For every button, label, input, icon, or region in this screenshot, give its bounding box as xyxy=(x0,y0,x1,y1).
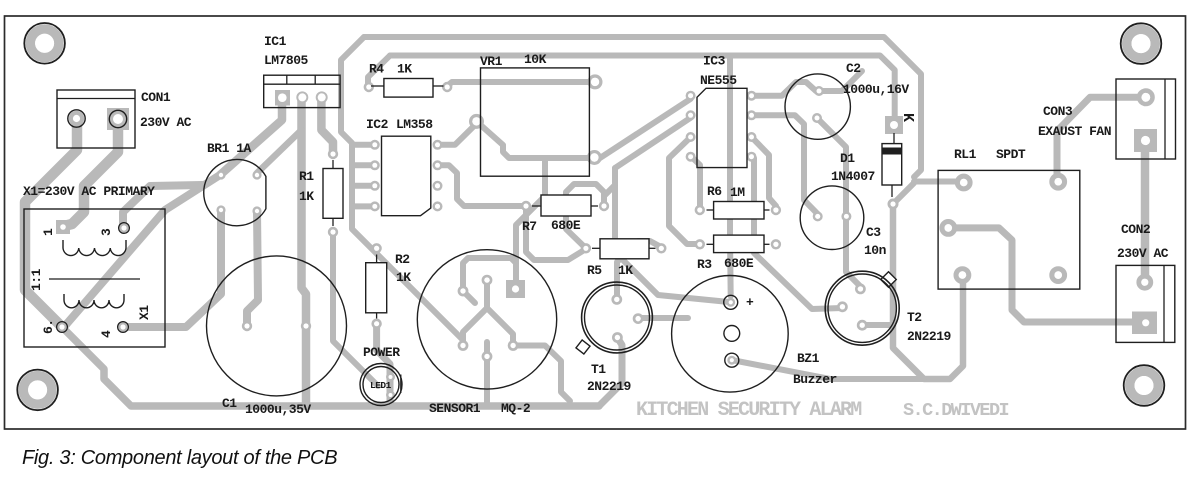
wire T2 emitter join xyxy=(862,322,890,328)
pad IC2 pinR3 xyxy=(434,182,442,190)
pad T1 collector xyxy=(613,295,621,303)
svg-text:K: K xyxy=(899,113,916,122)
pad T2 base xyxy=(838,303,846,311)
transistor T1 2N2219 xyxy=(582,282,653,353)
pad BR1 pad2 xyxy=(254,172,261,179)
pad IC3 pinL4 xyxy=(687,153,695,161)
svg-text:2N2219: 2N2219 xyxy=(587,379,632,394)
wire T1 collector riser to R5 xyxy=(617,241,661,299)
resistor R2 xyxy=(366,263,387,313)
wire BR1 BR to C1 left pad xyxy=(247,211,258,326)
svg-text:CON3: CON3 xyxy=(1043,104,1073,119)
svg-text:6.: 6. xyxy=(41,319,56,334)
pad SENSOR1 pad MR xyxy=(509,341,517,349)
wire T1 base lead right xyxy=(638,315,688,321)
resistor R4 xyxy=(384,79,433,98)
wire X1 pin3 riser xyxy=(123,185,202,228)
svg-text:1K: 1K xyxy=(397,62,412,77)
pad C3 left xyxy=(814,213,822,221)
pad CON3-2 (square) xyxy=(1134,129,1157,152)
resistor R3 xyxy=(714,235,764,253)
wire junction diag to IC3 pin2 xyxy=(615,118,691,168)
pad IC3 pinR4 xyxy=(748,153,756,161)
pad IC2 pinL4 xyxy=(371,203,379,211)
pad RL1 pad BR xyxy=(1052,269,1065,282)
pad mount hole TR xyxy=(1127,29,1156,58)
wire CON1-L to X1 pin6 (AC neutral) xyxy=(25,120,77,327)
wire CON1-R to X1 pin1 xyxy=(64,120,118,226)
svg-text:R3: R3 xyxy=(697,257,712,272)
pad X1 pin4 xyxy=(119,323,127,331)
svg-text:IC3: IC3 xyxy=(703,54,726,69)
pad IC2 pinL3 xyxy=(371,182,379,190)
transistor T2 2N2219 tab xyxy=(881,272,897,288)
svg-text:LM7805: LM7805 xyxy=(264,53,309,68)
diode D1 1N4007 xyxy=(893,133,895,144)
svg-text:LM358: LM358 xyxy=(396,117,433,132)
pad BR1 pad1 xyxy=(218,172,225,179)
op-amp IC2 LM358 xyxy=(382,136,431,216)
pad X1 pin3 xyxy=(120,224,128,232)
svg-text:1M: 1M xyxy=(730,185,745,200)
pad C2 minus xyxy=(813,114,821,122)
pad SENSOR1 pad TL xyxy=(459,287,467,295)
svg-text:MQ-2: MQ-2 xyxy=(501,401,531,416)
pad IC3 pinR2 xyxy=(748,112,756,120)
wire C2 plus to rail B xyxy=(819,71,862,91)
wire CON3 pad to RL1 contact xyxy=(1057,97,1146,181)
wire IC1 pin2 down through C1 right pad to bottom bus xyxy=(302,98,307,406)
connector CON2 xyxy=(1116,265,1175,342)
wire BR1 TR to R1 top xyxy=(257,130,302,173)
pad BR1 pad4 xyxy=(254,208,261,215)
pad IC3 pinL1 xyxy=(687,92,695,100)
svg-text:EXAUST FAN: EXAUST FAN xyxy=(1038,124,1111,139)
pad RL1 pad ML xyxy=(942,222,955,235)
pad CON2-2 (square) xyxy=(1132,312,1157,335)
svg-text:Fig. 3: Component layout of th: Fig. 3: Component layout of the PCB xyxy=(22,447,337,469)
wire R1 bottom to LED1 cathode xyxy=(333,232,378,386)
resistor R5 xyxy=(600,239,649,259)
pad R7 right xyxy=(600,202,608,210)
pad C2 plus xyxy=(815,87,823,95)
svg-text:1000u,35V: 1000u,35V xyxy=(245,402,311,417)
pad CON1-2 (square) xyxy=(107,108,129,130)
svg-text:4: 4 xyxy=(99,330,114,338)
svg-text:RL1: RL1 xyxy=(954,147,977,162)
svg-text:3: 3 xyxy=(99,228,114,236)
svg-text:C2: C2 xyxy=(846,61,861,76)
bridge rectifier BR1 xyxy=(204,159,266,225)
wire IC2 pin7 to R7 left xyxy=(438,165,527,206)
svg-text:R5: R5 xyxy=(587,263,602,278)
svg-text:LED1: LED1 xyxy=(370,380,392,391)
wire D1 anode to RL1-TL xyxy=(893,182,958,205)
pad R2 bottom xyxy=(373,320,381,328)
resistor R1 xyxy=(323,169,343,219)
wire IC2 pin1 stub xyxy=(352,142,375,148)
wire IC2 pin2 stub xyxy=(352,162,375,168)
capacitor C3 xyxy=(800,186,864,250)
pad BR1 pad3 xyxy=(218,207,225,214)
svg-text:1K: 1K xyxy=(299,189,314,204)
svg-text:R7: R7 xyxy=(522,219,537,234)
svg-text:BZ1: BZ1 xyxy=(797,351,820,366)
pad R5 left xyxy=(582,244,590,252)
pad R5 right xyxy=(657,244,665,252)
wire BR1 TL to X1 pin6 diagonal xyxy=(64,175,220,327)
wire D1 anode down to relay bus xyxy=(893,206,963,379)
pad R1 bottom xyxy=(329,228,337,236)
wire SENSOR1 bottom pad to bottom bus xyxy=(484,356,490,406)
svg-text:R6: R6 xyxy=(707,184,722,199)
wire R2 bottom through LED1 to bus xyxy=(377,324,390,406)
svg-text:VR1: VR1 xyxy=(480,54,503,69)
svg-text:1K: 1K xyxy=(396,270,411,285)
pad IC3 pinL2 xyxy=(687,112,695,120)
pad IC2 pinL1 xyxy=(371,141,379,149)
wire SENSOR1 right pad out to bottom bus xyxy=(513,346,570,402)
wire bottom bus up to T1 emitter xyxy=(599,337,622,406)
pad R4 right xyxy=(443,83,451,91)
svg-text:T1: T1 xyxy=(591,362,606,377)
pad R3 right xyxy=(772,240,780,248)
pad C1 plus xyxy=(243,322,251,330)
svg-text:C3: C3 xyxy=(866,225,881,240)
pad RL1 pad TR xyxy=(1052,175,1065,188)
svg-text:R4: R4 xyxy=(369,62,384,77)
pad VR1 pad3 xyxy=(589,152,601,164)
relay RL1 xyxy=(938,170,1080,289)
pad mount hole BR xyxy=(1130,371,1159,400)
wire IC3 pin3 to R3 left xyxy=(669,137,700,244)
resistor R6 xyxy=(714,202,764,220)
wire R7 left loop down to R5 left xyxy=(526,206,586,260)
svg-text:Buzzer: Buzzer xyxy=(793,372,837,387)
pad C3 right xyxy=(843,213,851,221)
transformer X1 pin rings xyxy=(119,223,130,234)
pad T2 collector xyxy=(856,285,864,293)
transistor T1 2N2219 tab xyxy=(576,340,590,354)
svg-text:R2: R2 xyxy=(395,252,410,267)
wire BR1 BL to X1 pin4 xyxy=(124,210,221,327)
svg-text:680E: 680E xyxy=(724,256,754,271)
pad mount hole BL xyxy=(23,376,52,405)
wire junction to BZ1 plus xyxy=(615,168,729,302)
svg-text:X1: X1 xyxy=(137,305,152,320)
svg-text:10K: 10K xyxy=(524,52,547,67)
svg-text:R1: R1 xyxy=(299,169,314,184)
pad R7 left xyxy=(522,202,530,210)
capacitor C2 xyxy=(785,74,850,139)
pad IC3 pinR3 xyxy=(748,133,756,141)
transformer X1 outline xyxy=(24,209,165,347)
wire VR1 left pad to bottom-right pad xyxy=(477,121,595,158)
pad T1 emitter xyxy=(613,333,621,341)
pad IC2 pinR2 xyxy=(434,162,442,170)
pad R4 left xyxy=(365,83,373,91)
svg-text:IC2: IC2 xyxy=(366,117,389,132)
wire top rail A xyxy=(364,37,921,177)
pad CON1-1 xyxy=(71,113,82,124)
svg-text:2N2219: 2N2219 xyxy=(907,329,952,344)
pad CON2-1 xyxy=(1139,276,1151,288)
wire IC3 pin4 to R6 left xyxy=(691,156,700,210)
svg-text:1:1: 1:1 xyxy=(29,268,44,291)
regulator IC1 LM7805 xyxy=(264,75,340,107)
transistor T2 2N2219 xyxy=(825,271,899,345)
pad D1 anode xyxy=(889,200,897,208)
wire SENSOR1 heater web xyxy=(463,283,513,356)
pad SENSOR1 pad bottom xyxy=(483,352,491,360)
svg-text:C1: C1 xyxy=(222,396,237,411)
pad C1 minus xyxy=(302,322,310,330)
svg-text:1N4007: 1N4007 xyxy=(831,169,875,184)
wire IC3 pin8 to C2 plus xyxy=(752,82,820,96)
svg-text:CON1: CON1 xyxy=(141,90,171,105)
connector CON3 xyxy=(1116,79,1176,159)
pad R1 top xyxy=(329,150,337,158)
svg-text:230V AC: 230V AC xyxy=(1117,246,1169,261)
wire IC1 pin1 to BR1 TL pad xyxy=(220,98,282,175)
pad IC1 pin1 (square) xyxy=(275,90,290,106)
pad X1 pin1 (square) xyxy=(56,220,70,234)
pad VR1 pad1 xyxy=(589,76,601,88)
svg-text:230V AC: 230V AC xyxy=(140,115,192,130)
wire top rail B xyxy=(390,56,895,121)
wire IC3 pin6 to R6 right xyxy=(752,137,777,206)
svg-text:X1=230V AC PRIMARY: X1=230V AC PRIMARY xyxy=(23,184,155,199)
wire IC2 pin8 to VR1 left pad xyxy=(438,124,477,145)
svg-text:1000u,16V: 1000u,16V xyxy=(843,82,909,97)
svg-text:+: + xyxy=(746,295,754,310)
svg-text:10n: 10n xyxy=(864,243,887,258)
svg-text:KITCHEN SECURITY ALARM: KITCHEN SECURITY ALARM xyxy=(636,399,862,422)
LED1 xyxy=(360,364,402,406)
pad R3 left xyxy=(696,240,704,248)
mount hole TL outline xyxy=(24,23,65,64)
svg-text:SENSOR1: SENSOR1 xyxy=(429,401,481,416)
wire R4 right to VR1 wiper rail xyxy=(447,82,594,86)
pad LED1 anode xyxy=(387,374,394,381)
wire IC3 pin5 down to T2 base xyxy=(754,158,842,309)
preset VR1 xyxy=(481,68,590,176)
svg-text:D1: D1 xyxy=(840,151,855,166)
pad SENSOR1 pad TR (square) xyxy=(506,280,525,298)
transformer X1 primary winding xyxy=(63,240,126,256)
pad RL1 pad BL xyxy=(956,269,969,282)
mount hole BR outline xyxy=(1124,365,1165,406)
pad T2 emitter xyxy=(858,321,866,329)
svg-text:SPDT: SPDT xyxy=(996,147,1026,162)
svg-text:CON2: CON2 xyxy=(1121,222,1151,237)
pad R2 top xyxy=(373,244,381,252)
pad IC3 pinR1 xyxy=(748,92,756,100)
pad IC2 pinL2 xyxy=(371,162,379,170)
pad X1 pin6 xyxy=(58,323,66,331)
wire IC2 pin4 stub xyxy=(352,203,375,209)
pad RL1 pad TL xyxy=(957,176,970,189)
svg-text:680E: 680E xyxy=(551,218,581,233)
wire R5 left over R7 arch to R7 right xyxy=(566,184,604,248)
connector CON1 xyxy=(57,90,135,148)
wire VR1 stub down to SENSOR1 square pad xyxy=(516,158,545,287)
wire rail B down to BZ1 plus xyxy=(727,58,734,296)
pad SENSOR1 pad top xyxy=(483,276,491,284)
wire top rail B left drop to R4 xyxy=(368,56,390,87)
pad R6 right xyxy=(772,206,780,214)
pad IC1 pin3 xyxy=(317,92,327,102)
pad VR1 pad2 xyxy=(471,116,483,128)
svg-text:T2: T2 xyxy=(907,310,922,325)
svg-text:IC1: IC1 xyxy=(264,34,287,49)
pad CON3-1 xyxy=(1139,91,1152,104)
pad BZ1 plus xyxy=(727,299,734,306)
wire CON3 square pad down to CON2 pad xyxy=(1141,150,1150,281)
buzzer BZ1 xyxy=(672,276,789,393)
wire R7 right to junction xyxy=(604,170,615,206)
gas sensor SENSOR1 MQ-2 xyxy=(417,250,556,389)
pad R6 left xyxy=(696,206,704,214)
mount hole TR outline xyxy=(1121,23,1162,64)
pad BZ1 minus xyxy=(729,357,736,364)
wire IC3 pin7 to C3 left xyxy=(752,115,818,214)
resistor R7 xyxy=(541,195,591,216)
pad IC2 pinR1 xyxy=(434,141,442,149)
svg-text:S.C.DWIVEDI: S.C.DWIVEDI xyxy=(903,400,1009,421)
mount hole BL outline xyxy=(17,370,58,411)
pad IC1 pin2 xyxy=(297,92,307,102)
wire X1 pin6 to bottom ground bus xyxy=(62,327,599,406)
LED1 flat edge xyxy=(400,375,402,394)
pad D1 cathode K (square) xyxy=(885,116,903,134)
pad mount hole TL xyxy=(30,29,59,58)
wire C2 minus down through C3 right to T2 collector xyxy=(817,118,860,286)
pad T1 base xyxy=(634,315,642,323)
capacitor C1 xyxy=(207,256,347,396)
svg-text:BR1 1A: BR1 1A xyxy=(207,141,252,156)
timer IC3 NE555 xyxy=(697,88,747,167)
wire IC1 pin3 to R1 top xyxy=(321,98,333,154)
wire RL1 common to CON2 square pad xyxy=(948,228,1140,322)
pad LED1 cathode xyxy=(387,392,394,399)
pad IC2 pinR4 xyxy=(434,203,442,211)
wire BZ1 minus to relay trace xyxy=(732,360,924,379)
wire IC2 pin3 stub xyxy=(352,183,375,189)
pad IC3 pinL3 xyxy=(687,133,695,141)
svg-text:1: 1 xyxy=(41,228,56,236)
transformer X1 secondary winding xyxy=(64,294,124,308)
svg-text:POWER: POWER xyxy=(363,345,400,360)
pad SENSOR1 pad ML xyxy=(459,341,467,349)
wire VR1 BR pad to IC3 pin xyxy=(600,99,691,158)
svg-text:1K: 1K xyxy=(618,263,633,278)
wire SENSOR1 arch TL-TR xyxy=(463,258,516,287)
svg-text:NE555: NE555 xyxy=(700,73,737,88)
wire top rail A left drop to IC2 xyxy=(341,37,463,346)
